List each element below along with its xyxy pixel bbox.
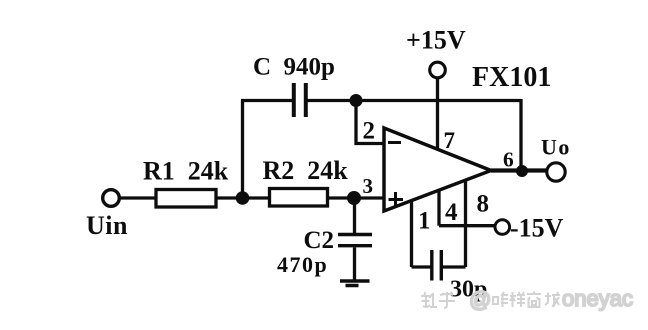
wire R2 to pin 3 xyxy=(328,196,385,199)
wire feedback down to output node xyxy=(519,99,522,171)
svg-text:7: 7 xyxy=(444,128,456,153)
wire pin 1 down xyxy=(410,200,413,267)
wire pin 4 to -15V xyxy=(439,224,495,227)
power +15V terminal xyxy=(430,62,446,78)
wire output pin 6 xyxy=(491,168,548,172)
svg-text:+15V: +15V xyxy=(406,26,466,55)
wire capacitor C to right corner xyxy=(308,99,522,102)
wire node A up to feedback xyxy=(241,101,244,199)
node B junction dot xyxy=(347,191,361,205)
resistor R2 xyxy=(270,189,328,207)
capacitor C3 30p xyxy=(432,250,442,281)
wire top left to capacitor C xyxy=(241,99,292,102)
wire top node to pin 2 xyxy=(356,101,384,144)
svg-text:Uin: Uin xyxy=(86,211,128,240)
svg-text:3: 3 xyxy=(363,174,374,198)
svg-text:-15V: -15V xyxy=(510,214,564,243)
svg-text:C2: C2 xyxy=(304,227,335,254)
wire C2 to ground xyxy=(353,248,356,282)
wire pin 8 down xyxy=(464,180,467,267)
terminal Uin xyxy=(103,190,120,207)
wire capacitor C3 to pin 8 xyxy=(441,265,465,268)
op-amp plus input sign xyxy=(389,192,404,207)
terminal Uo xyxy=(547,163,565,181)
capacitor C2 xyxy=(338,235,372,246)
svg-text:R2 24k: R2 24k xyxy=(263,156,349,185)
wire pin1 to capacitor C3 xyxy=(412,265,432,268)
wire Uin to R1 xyxy=(120,196,157,199)
node output junction dot xyxy=(516,165,528,177)
svg-text:Uo: Uo xyxy=(541,135,571,160)
svg-text:6: 6 xyxy=(503,148,514,172)
watermark xyxy=(421,286,633,312)
svg-text:1: 1 xyxy=(418,208,431,235)
svg-text:FX101: FX101 xyxy=(472,62,551,93)
ground xyxy=(340,281,370,286)
svg-text:@: @ xyxy=(469,287,491,312)
svg-text:R1 24k: R1 24k xyxy=(143,157,229,186)
capacitor C xyxy=(294,83,306,117)
wire +15V to pin 7 xyxy=(436,78,439,149)
wire R1 to R2 xyxy=(216,196,270,199)
svg-text:470p: 470p xyxy=(277,252,328,277)
node top junction dot xyxy=(350,94,363,107)
power -15V terminal xyxy=(495,220,510,235)
resistor R1 xyxy=(156,190,216,208)
svg-text:2: 2 xyxy=(363,118,376,145)
svg-text:oneyac: oneyac xyxy=(562,286,633,311)
wire pin 4 down xyxy=(437,190,440,226)
op-amp minus input sign xyxy=(388,141,401,144)
op-amp U1 triangle xyxy=(384,128,491,211)
svg-text:8: 8 xyxy=(477,191,490,218)
svg-text:4: 4 xyxy=(445,199,458,226)
wire node B down to C2 xyxy=(353,198,356,233)
svg-text:C 940p: C 940p xyxy=(253,54,335,81)
node A junction dot xyxy=(236,191,250,205)
